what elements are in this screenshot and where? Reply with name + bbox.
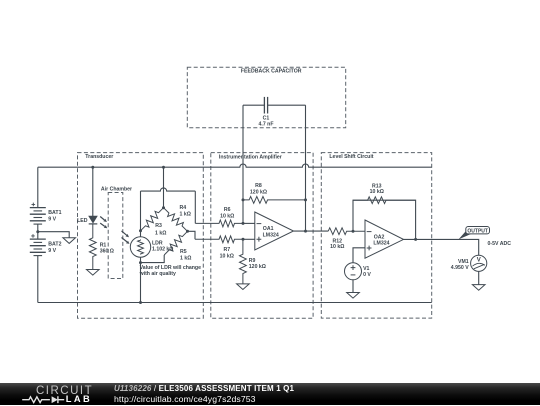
- svg-text:LED: LED: [77, 218, 88, 224]
- label R1: [100, 243, 114, 255]
- svg-text:9 V: 9 V: [48, 248, 56, 254]
- wire OA1 output: [294, 230, 329, 232]
- voltmeter VM1: [471, 255, 487, 271]
- label R7: [220, 247, 234, 259]
- svg-text:1.102 kΩ: 1.102 kΩ: [152, 247, 173, 253]
- wire C1 horizontal: [243, 104, 306, 106]
- resistor R7: [195, 236, 243, 243]
- svg-text:R8: R8: [255, 183, 262, 189]
- label Level Shift Circuit: [329, 154, 373, 160]
- svg-text:LDR: LDR: [152, 240, 163, 246]
- wire -9V bottom rail: [38, 302, 432, 304]
- label OUTPUT: [467, 228, 488, 234]
- svg-text:10 kΩ: 10 kΩ: [370, 189, 384, 195]
- label BAT2: [48, 241, 61, 254]
- resistor R13: [353, 197, 416, 204]
- svg-text:Air Chamber: Air Chamber: [101, 186, 132, 192]
- label R5: [180, 249, 191, 261]
- label VM1 V: [477, 257, 481, 263]
- box Level Shift Circuit: [321, 153, 431, 319]
- resistor R4: [164, 208, 188, 232]
- node bridge to 0V rail: [139, 301, 142, 304]
- wire V1 to ground: [352, 280, 354, 293]
- label LED: [77, 218, 88, 224]
- label 0-5V ADC: [488, 241, 512, 247]
- CircuitLab logo CIRCUIT: [36, 385, 93, 397]
- source V1: [345, 263, 362, 280]
- label OA1: [263, 226, 279, 239]
- battery BAT1: [30, 203, 46, 225]
- svg-text:OUTPUT: OUTPUT: [467, 228, 488, 234]
- label Transducer: [85, 154, 113, 160]
- node OA1 output: [304, 230, 307, 233]
- svg-text:10 kΩ: 10 kΩ: [220, 213, 234, 219]
- svg-text:R4: R4: [180, 205, 187, 211]
- svg-text:10 kΩ: 10 kΩ: [330, 244, 344, 250]
- svg-text:LM324: LM324: [263, 233, 279, 239]
- svg-text:R6: R6: [224, 207, 231, 213]
- wire +9V top rail with hops: [38, 164, 432, 167]
- node bridge left: [139, 229, 142, 232]
- ground R9: [237, 284, 250, 290]
- wire VM1 to ground: [478, 271, 480, 284]
- svg-text:Instrumentation Amplifier: Instrumentation Amplifier: [219, 154, 282, 160]
- node bridge bottom: [139, 261, 142, 264]
- wire battery stack left rail: [37, 167, 39, 302]
- label LDR: [152, 240, 173, 252]
- label R8: [250, 183, 267, 195]
- CircuitLab logo squiggle resistor-diode: [22, 393, 66, 406]
- svg-text:Level Shift Circuit: Level Shift Circuit: [329, 154, 373, 160]
- resistor R9: [240, 239, 247, 284]
- node bridge branch on +9V rail: [162, 166, 165, 169]
- wire C1 right vertical: [305, 105, 307, 231]
- resistor R3: [141, 208, 164, 231]
- resistor R1: [89, 224, 96, 270]
- battery BAT2: [30, 234, 46, 256]
- svg-text:with air quality: with air quality: [139, 271, 176, 277]
- label R4: [180, 205, 191, 217]
- svg-text:9 V: 9 V: [48, 216, 56, 222]
- svg-text:0 V: 0 V: [363, 272, 371, 278]
- wire bypass left drop: [140, 191, 142, 237]
- flag OUTPUT: [459, 227, 490, 240]
- svg-text:360 Ω: 360 Ω: [100, 249, 114, 255]
- label R12: [330, 238, 344, 250]
- ground V1: [347, 293, 360, 299]
- svg-text:BAT2: BAT2: [48, 241, 61, 247]
- svg-text:VM1: VM1: [458, 259, 469, 265]
- svg-text:1 kΩ: 1 kΩ: [180, 255, 191, 261]
- annotation LDR note: [139, 265, 202, 277]
- ground R1: [87, 270, 100, 276]
- wire OA2 output: [404, 239, 479, 255]
- label BAT1: [48, 210, 61, 223]
- wire rail to bridge top: [163, 167, 165, 208]
- box Instrumentation Amplifier: [211, 153, 313, 319]
- svg-text:Transducer: Transducer: [85, 154, 113, 160]
- svg-text:1 kΩ: 1 kΩ: [155, 230, 166, 236]
- node R8 right: [304, 198, 307, 201]
- wire bridge bypass with hop: [141, 188, 196, 191]
- label R3: [155, 223, 166, 236]
- node R8 left: [242, 198, 245, 201]
- label R9: [249, 258, 266, 270]
- wire to mid ground: [38, 232, 69, 238]
- resistor R12: [328, 228, 365, 235]
- resistor R5: [164, 231, 187, 255]
- wire LDR bottom to rail: [140, 257, 142, 302]
- svg-text:1 kΩ: 1 kΩ: [180, 211, 191, 217]
- svg-text:120 kΩ: 120 kΩ: [250, 190, 267, 196]
- svg-text:4.7 nF: 4.7 nF: [259, 121, 274, 127]
- svg-text:120 kΩ: 120 kΩ: [249, 264, 266, 270]
- svg-text:0-5V ADC: 0-5V ADC: [488, 241, 512, 247]
- node LED branch on +9V rail: [91, 166, 94, 169]
- wire R5 elbow: [141, 255, 165, 263]
- label VM1: [451, 259, 469, 271]
- footer title text: [114, 385, 294, 393]
- ground battery midpoint: [63, 238, 76, 244]
- svg-text:R3: R3: [155, 223, 162, 229]
- node OA1 non-inverting: [242, 238, 245, 241]
- box Air Chamber: [108, 193, 123, 279]
- svg-text:10 kΩ: 10 kΩ: [220, 253, 234, 259]
- footer url text: [114, 395, 256, 404]
- ground VM1: [472, 285, 485, 291]
- box FEEDBACK CAPACITOR: [187, 67, 345, 127]
- wire bypass right drop: [194, 191, 196, 223]
- CircuitLab footer bar: [0, 383, 540, 405]
- wire OA2 plus input: [353, 248, 365, 263]
- node bridge right: [186, 230, 189, 233]
- svg-text:V1: V1: [363, 266, 369, 272]
- label Air Chamber: [101, 186, 132, 192]
- svg-text:LM324: LM324: [373, 241, 389, 247]
- label C1: [259, 116, 274, 128]
- LED diode: [89, 216, 98, 224]
- svg-text:R7: R7: [223, 247, 230, 253]
- node R12 OA2 junction: [352, 230, 355, 233]
- wire OA1 inverting input: [243, 222, 255, 224]
- label V1: [363, 266, 371, 278]
- wire R13 feedback loop: [353, 200, 416, 239]
- wire rail to LED: [92, 167, 94, 216]
- capacitor C1: [264, 97, 267, 114]
- label R6: [220, 207, 234, 219]
- svg-text:OA2: OA2: [374, 234, 385, 240]
- svg-text:FEEDBACK CAPACITOR: FEEDBACK CAPACITOR: [241, 68, 302, 74]
- node OA1 inverting: [242, 222, 245, 225]
- CircuitLab logo LAB: [66, 395, 92, 404]
- svg-text:4.950 V: 4.950 V: [451, 265, 469, 271]
- label OA2: [373, 234, 389, 246]
- label R13: [370, 184, 384, 196]
- label Instrumentation Amplifier: [219, 154, 282, 160]
- box Transducer: [78, 153, 204, 319]
- LED emission arrows: [100, 217, 107, 229]
- node bridge top: [162, 206, 165, 209]
- svg-text:R5: R5: [180, 249, 187, 255]
- op-amp OA2: [365, 220, 404, 258]
- svg-text:OA1: OA1: [263, 226, 274, 232]
- node R13 output junction: [414, 238, 417, 241]
- label FEEDBACK CAPACITOR: [241, 68, 302, 74]
- svg-text:V: V: [477, 257, 481, 263]
- wire bridge right to R7: [188, 231, 196, 239]
- resistor R8: [243, 197, 306, 204]
- resistor R6: [195, 220, 243, 227]
- wire C1 left vertical: [242, 105, 244, 223]
- svg-text:BAT1: BAT1: [48, 210, 61, 216]
- LDR incident arrows: [122, 231, 130, 244]
- photoresistor LDR: [130, 237, 150, 257]
- op-amp OA1: [255, 212, 294, 250]
- wire OA1 non-inverting input: [243, 238, 255, 240]
- node battery midpoint: [36, 230, 39, 233]
